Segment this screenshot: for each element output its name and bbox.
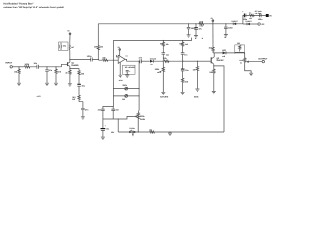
svg-text:100R: 100R (199, 20, 204, 23)
op-amp V+ pin (119, 50, 121, 56)
bottom rail (118, 131, 224, 133)
trimmer T2 (125, 95, 128, 98)
node p1 (188, 23, 189, 24)
capacitor C1 (37, 65, 39, 69)
diode D1 (150, 60, 153, 63)
node B (55, 66, 56, 67)
capacitor C3e (81, 108, 85, 116)
svg-text:ctr neg: ctr neg (255, 12, 262, 15)
node A (46, 66, 47, 67)
node tone2 (182, 61, 183, 62)
V+ supply (69, 35, 71, 43)
emitter wire (213, 64, 215, 66)
emitter node (69, 68, 70, 69)
resistor Rp2 (249, 14, 254, 16)
ground (101, 137, 105, 139)
node t2 (182, 40, 183, 41)
wire (141, 60, 149, 62)
node collector out (69, 59, 70, 60)
svg-text:2N5087: 2N5087 (216, 59, 224, 62)
svg-text:redrawn from "MP Doja Kpt V1.0: redrawn from "MP Doja Kpt V1.0" schemati… (4, 6, 65, 9)
svg-text:R14: R14 (160, 43, 163, 46)
svg-text:22n: 22n (166, 53, 169, 56)
svg-text:1/4W: 1/4W (199, 25, 203, 28)
ground (224, 35, 228, 37)
input jack J1 (10, 66, 12, 68)
svg-text:1M: 1M (14, 70, 17, 73)
resistor R2 (25, 66, 37, 68)
capacitor C2 (45, 67, 49, 83)
node base3 (197, 61, 198, 62)
op-amp V- pin to ground (119, 62, 123, 77)
svg-text:x2: x2 (130, 129, 132, 132)
svg-text:1N5817: 1N5817 (231, 20, 237, 23)
ground mid (169, 131, 170, 132)
capacitor Ct1 (162, 53, 166, 62)
svg-text:1W: 1W (72, 98, 75, 101)
svg-text:10k: 10k (149, 128, 152, 131)
svg-text:4k7: 4k7 (71, 46, 74, 49)
transistor Q3 (210, 57, 212, 63)
svg-text:U1: U1 (126, 54, 128, 57)
wire emitter to bottom rail (214, 66, 224, 132)
ground (54, 83, 58, 85)
node p3 (225, 23, 226, 24)
potentiometer P3 volume (244, 53, 252, 73)
svg-text:LED: LED (222, 49, 227, 52)
capacitor C bypass (60, 43, 62, 51)
wire to rail (212, 24, 214, 45)
small label (37, 95, 42, 98)
svg-text:lin: lin (240, 62, 242, 65)
resistor R6e (78, 71, 80, 84)
note text (255, 10, 263, 15)
svg-text:+: + (105, 124, 106, 127)
svg-text:1N4001: 1N4001 (245, 20, 251, 23)
svg-text:Ge: Ge (150, 63, 152, 66)
resistor Rt2 (181, 40, 183, 52)
link lower (114, 95, 140, 97)
svg-text:2N5089: 2N5089 (71, 64, 79, 67)
IC box label (123, 65, 136, 74)
ground (161, 92, 165, 94)
svg-text:15k: 15k (166, 43, 169, 46)
svg-text:1k: 1k (249, 12, 251, 15)
svg-text:100n: 100n (228, 26, 233, 29)
resistor Rt3 (181, 78, 183, 92)
resistor Rc3 (212, 45, 214, 53)
ground (181, 92, 185, 94)
svg-text:1M: 1M (193, 68, 196, 71)
ground (195, 89, 199, 91)
ground (212, 91, 216, 93)
resistor R3 (55, 67, 57, 83)
wire jog (79, 102, 83, 108)
svg-text:1M: 1M (94, 46, 97, 49)
collector wire (213, 53, 245, 57)
op-amp output wire (125, 59, 140, 61)
feedback column right (137, 61, 140, 112)
potentiometer P2 gain (137, 113, 139, 132)
capacitor C4 coupling (91, 58, 93, 62)
capacitor Cp3 (224, 24, 228, 35)
node bias (98, 59, 99, 60)
capacitor Ct2 (181, 53, 185, 62)
capacitor C5 (140, 59, 142, 63)
DC jack (258, 23, 260, 25)
stub to op-amp top input (117, 55, 119, 57)
node input (18, 66, 19, 67)
svg-text:3k9: 3k9 (185, 43, 188, 46)
svg-text:1M: 1M (100, 46, 103, 49)
capacitor Cp1 (187, 24, 191, 35)
ground (68, 84, 72, 86)
transistor Q1 2N5089 (67, 62, 69, 66)
title text (4, 2, 65, 9)
resistor Rr1 (150, 131, 155, 133)
svg-text:10n: 10n (184, 54, 187, 57)
emitter wire (69, 66, 71, 70)
node t1 (163, 40, 164, 41)
svg-text:1/2 LM1458: 1/2 LM1458 (125, 66, 135, 69)
svg-text:10u: 10u (106, 128, 109, 131)
ground under box (125, 75, 129, 77)
svg-text:100n: 100n (258, 18, 263, 21)
ground (45, 83, 49, 85)
box around C/R (59, 42, 69, 51)
electro cap Cf3 (102, 119, 104, 128)
resistor Rp1 (199, 23, 204, 25)
node p2 (195, 23, 196, 24)
node p4 (259, 15, 260, 16)
wire to Q1 base (62, 64, 68, 67)
wire to Q3 (197, 60, 210, 62)
resistor R8 series (103, 59, 119, 61)
link bottom (103, 116, 133, 119)
capacitor Cp4 electro (243, 14, 245, 18)
link upper (114, 88, 140, 90)
feedback column left (113, 60, 115, 106)
wire (183, 60, 197, 62)
DC line (243, 23, 258, 25)
node c3a (234, 52, 235, 53)
wire (70, 59, 91, 61)
power rail (98, 15, 265, 23)
node c3b (244, 52, 245, 53)
diodes D5 D6 (129, 131, 132, 134)
svg-text:trim: trim (119, 79, 123, 82)
ground (17, 83, 21, 85)
resistor R1 1M (18, 67, 20, 83)
resistor Re3 (213, 66, 215, 91)
ground (187, 35, 191, 37)
node output (139, 61, 140, 62)
capacitor Cp5 (260, 14, 262, 18)
resistor R5e (69, 70, 71, 83)
diode D4 (247, 23, 250, 26)
ground (194, 36, 198, 38)
svg-text:100n: 100n (87, 55, 92, 58)
resistor Rbias 1M (97, 24, 99, 60)
svg-text:R15: R15 (179, 43, 182, 46)
wire (12, 66, 24, 68)
svg-text:NATURE: NATURE (160, 96, 169, 99)
ground (81, 117, 85, 119)
resistor in box (239, 46, 241, 52)
capacitor in box (126, 71, 129, 75)
wiper arrow gain (133, 116, 137, 117)
svg-text:OUTPUT: OUTPUT (258, 57, 268, 60)
capacitor Cp2 electro (195, 24, 197, 28)
resistor Rt1 (162, 40, 164, 52)
capacitor Ce electro (77, 83, 81, 85)
node tone1 (163, 61, 164, 62)
battery B1 (266, 14, 269, 17)
capacitor Cf1 (101, 109, 105, 119)
node feedback crossing (113, 60, 114, 61)
capacitor Cf2 (111, 106, 115, 119)
resistor Rb3 (196, 61, 198, 89)
wire (38, 66, 61, 68)
resistor R4 (68, 42, 71, 50)
resistor R9 series (164, 60, 183, 62)
svg-text:Hot Rodded "Honey Bee": Hot Rodded "Honey Bee" (4, 2, 35, 5)
output jack (262, 60, 264, 62)
box RC (235, 45, 245, 52)
resistor R7e (78, 95, 80, 101)
op-amp U1 (118, 55, 125, 63)
trimmer T1 (125, 87, 128, 90)
wire (92, 59, 102, 62)
wire emitter branch (70, 69, 79, 71)
tone line upper (114, 38, 192, 61)
svg-text:1M: 1M (122, 98, 125, 101)
wire to caps (103, 106, 114, 109)
svg-text:GAIN: GAIN (140, 118, 146, 121)
diode D3 (233, 23, 236, 26)
diode D2 (223, 51, 226, 54)
node rail2 (138, 131, 139, 132)
collector wire (69, 50, 71, 62)
V+ tap (212, 20, 214, 22)
capacitor Ct3 electro (182, 61, 184, 69)
svg-text:1M: 1M (237, 42, 240, 45)
tiny labels (195, 37, 204, 40)
potentiometer P1 nature (162, 61, 164, 92)
svg-text:1N4148: 1N4148 (150, 58, 156, 61)
ground (249, 73, 253, 75)
svg-text:INPUT: INPUT (6, 61, 13, 64)
